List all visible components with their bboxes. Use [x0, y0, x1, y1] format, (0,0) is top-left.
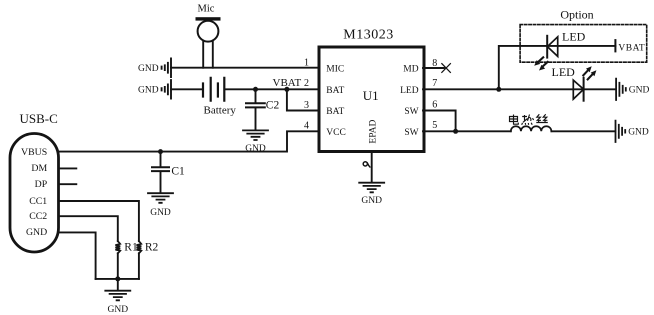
- svg-text:1: 1: [304, 58, 309, 69]
- ground below C1: [148, 193, 173, 203]
- svg-text:R2: R2: [145, 242, 159, 254]
- microphone left leg: [202, 41, 204, 68]
- ground sideways mic: [162, 59, 171, 78]
- svg-text:DP: DP: [35, 179, 48, 190]
- ground below C2: [243, 130, 268, 140]
- ground bottom left: [105, 291, 130, 301]
- option dashed box: [520, 25, 647, 63]
- svg-text:Option: Option: [560, 8, 593, 22]
- LED D2: [573, 78, 583, 101]
- svg-text:LED: LED: [552, 65, 576, 79]
- battery BT1: [203, 78, 224, 101]
- wire USB GND down: [59, 232, 96, 279]
- wire mic row to pin 1: [171, 67, 320, 69]
- wire pin 8 stub: [423, 67, 444, 69]
- svg-text:MD: MD: [403, 64, 418, 74]
- svg-text:BAT: BAT: [326, 107, 344, 117]
- svg-text:EPAD: EPAD: [369, 119, 379, 143]
- wire heater to GND: [551, 130, 615, 132]
- svg-text:2: 2: [304, 78, 309, 89]
- LED D1 (option): [547, 36, 558, 58]
- wire R2 bottom lead: [138, 253, 140, 279]
- VBAT terminal bar: [614, 40, 616, 51]
- node junction LED riser: [496, 87, 501, 92]
- svg-text:C1: C1: [171, 166, 185, 178]
- svg-text:C2: C2: [266, 99, 280, 111]
- wire EPAD pin 9: [371, 152, 373, 182]
- svg-text:R1: R1: [124, 242, 138, 254]
- svg-text:GND: GND: [361, 196, 382, 206]
- svg-text:DM: DM: [31, 163, 47, 174]
- svg-text:GND: GND: [150, 208, 171, 218]
- svg-text:GND: GND: [138, 64, 159, 74]
- svg-text:4: 4: [304, 121, 309, 132]
- ground below U1: [359, 183, 384, 193]
- USB-C connector body: [10, 134, 59, 253]
- microphone body: [198, 21, 219, 42]
- svg-text:Mic: Mic: [198, 4, 215, 15]
- wire battery to pin 2: [225, 88, 320, 90]
- inductor heater coil: [511, 126, 552, 131]
- svg-text:GND: GND: [628, 128, 649, 138]
- svg-text:SW: SW: [404, 128, 418, 138]
- capacitor C2: [246, 103, 265, 107]
- resistor R2: [137, 241, 142, 253]
- node junction C2: [253, 87, 258, 92]
- svg-text:CC2: CC2: [29, 211, 47, 222]
- capacitor C1: [152, 167, 169, 171]
- svg-text:SW: SW: [404, 107, 418, 117]
- svg-text:3: 3: [304, 100, 309, 111]
- wire C1 lower lead: [160, 172, 162, 193]
- microphone right leg: [212, 41, 214, 68]
- ground sideways heater: [616, 121, 626, 142]
- wire pin 6 branch: [423, 111, 456, 132]
- svg-text:GND: GND: [138, 86, 159, 96]
- svg-text:VBUS: VBUS: [21, 147, 47, 158]
- ground sideways battery: [162, 80, 171, 99]
- node junction pin3 branch: [284, 87, 289, 92]
- wire riser to option LED: [499, 46, 616, 89]
- svg-text:USB-C: USB-C: [20, 111, 58, 126]
- IC U1 M13023 body: [319, 47, 424, 152]
- svg-text:MIC: MIC: [326, 64, 344, 74]
- node junction SW: [453, 129, 458, 134]
- svg-text:GND: GND: [629, 86, 650, 96]
- pin number 9: [363, 162, 370, 167]
- svg-text:6: 6: [432, 99, 437, 110]
- wire DM stub: [59, 167, 77, 169]
- svg-text:BAT: BAT: [326, 86, 344, 96]
- wire pin 5 to heater: [423, 130, 511, 132]
- heater label 电热丝 (drawn strokes): [510, 114, 548, 125]
- wire CC1 to R2: [59, 201, 139, 241]
- svg-text:U1: U1: [363, 88, 379, 103]
- node junction bottom: [115, 276, 120, 281]
- LED D1 emission arrows: [534, 57, 548, 70]
- svg-text:CC1: CC1: [29, 196, 47, 207]
- wire pin 3 branch: [287, 89, 320, 110]
- wire C2 upper lead: [255, 89, 257, 102]
- wire DP stub: [59, 183, 77, 185]
- svg-text:7: 7: [432, 78, 437, 89]
- microphone top plate: [196, 17, 221, 20]
- wire VBUS to VCC riser: [59, 131, 321, 151]
- svg-text:M13023: M13023: [343, 28, 393, 43]
- svg-text:5: 5: [432, 120, 437, 131]
- resistor R1: [115, 241, 120, 253]
- wire bottom GND bus: [96, 278, 139, 280]
- svg-text:GND: GND: [26, 227, 47, 238]
- svg-text:GND: GND: [108, 305, 129, 315]
- wire R1 bottom lead: [117, 253, 119, 279]
- LED D2 emission arrows: [583, 66, 596, 79]
- svg-text:LED: LED: [400, 86, 419, 96]
- wire to bottom ground: [117, 279, 119, 290]
- wire CC2 to R1: [59, 216, 118, 241]
- wire C2 lower lead: [255, 108, 257, 130]
- svg-text:VBAT: VBAT: [618, 44, 645, 54]
- no-connect X pin 8: [442, 64, 451, 73]
- svg-text:VCC: VCC: [326, 128, 346, 138]
- svg-text:Battery: Battery: [204, 104, 237, 116]
- ground sideways LED: [616, 79, 626, 100]
- wire C1 upper lead: [160, 152, 162, 167]
- svg-text:LED: LED: [562, 30, 586, 44]
- node junction VBUS/C1: [158, 149, 163, 154]
- svg-text:GND: GND: [245, 144, 266, 154]
- wire gnd to battery: [171, 88, 202, 90]
- wire pin 7 to GND: [423, 88, 616, 90]
